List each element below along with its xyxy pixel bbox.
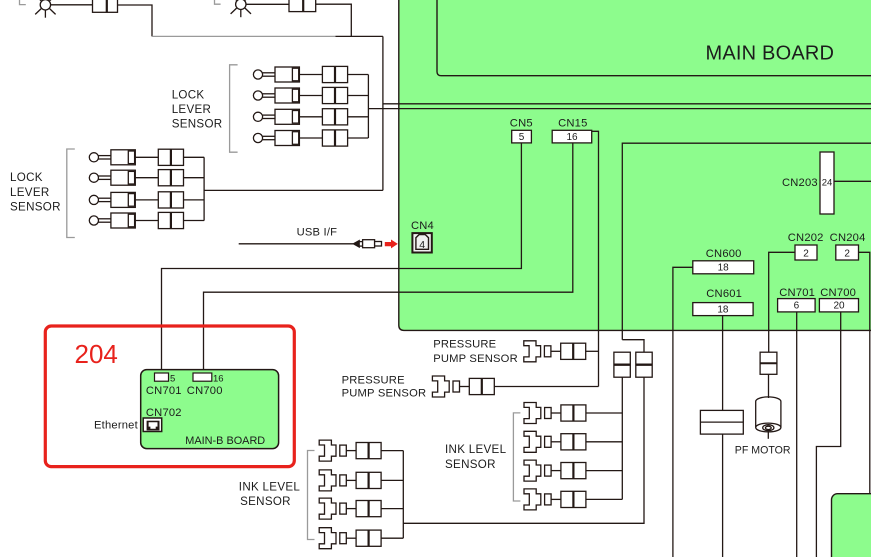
PF motor — [756, 397, 781, 439]
ink level sensor left row 3 — [319, 498, 381, 519]
wire to junction — [118, 5, 153, 36]
svg-text:204: 204 — [75, 339, 118, 369]
wire row 4 — [586, 498, 622, 500]
wire row 2 — [586, 441, 622, 443]
wire S2 to connector — [246, 3, 289, 5]
svg-text:CN701: CN701 — [779, 287, 815, 299]
wire ferrite feed from right edge — [622, 143, 871, 340]
lock lever sensor right row 2 — [253, 87, 368, 103]
wire left lock group feed — [204, 189, 383, 191]
svg-text:CN702: CN702 — [146, 407, 182, 419]
wire upper pressure sensor — [586, 350, 599, 352]
right lock lever sensor bracket — [230, 65, 238, 152]
wire encoder down — [722, 434, 724, 557]
svg-text:PUMP SENSOR: PUMP SENSOR — [433, 353, 518, 365]
svg-text:SENSOR: SENSOR — [445, 458, 496, 471]
svg-text:SENSOR: SENSOR — [10, 200, 61, 213]
wire lower bus into board — [368, 108, 871, 110]
wire top bus gray segment — [152, 35, 336, 37]
wire row 1 — [586, 412, 622, 414]
svg-text:USB I/F: USB I/F — [297, 226, 338, 238]
MAIN BOARD outer green board — [399, 0, 871, 330]
encoder 2-row box — [700, 410, 743, 434]
svg-text:INK LEVEL: INK LEVEL — [239, 481, 301, 494]
wire row 2 — [381, 479, 403, 481]
svg-text:PRESSURE: PRESSURE — [433, 339, 496, 351]
connector pair top row 1 (cut at top) — [93, 0, 118, 12]
svg-text:16: 16 — [213, 374, 224, 385]
connector CN701 (MAIN-B) — [155, 373, 169, 381]
svg-text:18: 18 — [717, 304, 729, 315]
lock lever sensor right row 3 — [253, 109, 368, 125]
svg-text:CN600: CN600 — [706, 248, 742, 260]
svg-text:CN203: CN203 — [782, 177, 818, 189]
ink level sensor left row 4 — [319, 528, 381, 549]
svg-text:CN15: CN15 — [558, 117, 587, 129]
lock lever sensor left row 1 — [89, 149, 204, 165]
lock lever sensor left row 4 — [89, 212, 204, 228]
connector pair top row 2 (cut at top) — [289, 0, 316, 12]
svg-text:24: 24 — [822, 178, 833, 189]
svg-text:4: 4 — [419, 239, 425, 251]
svg-text:18: 18 — [718, 263, 730, 274]
wire S1 to connector — [51, 4, 93, 6]
svg-text:SENSOR: SENSOR — [240, 495, 291, 508]
svg-text:INK LEVEL: INK LEVEL — [445, 443, 507, 456]
wire CN15 to pressure pump sensors — [592, 131, 599, 386]
top gray bracket stub 1 — [20, 0, 26, 5]
wire ferrite 2 to left ink bus — [403, 377, 644, 523]
wire CN15 to MAIN-B CN700 — [204, 143, 573, 373]
right ink level sensor bracket — [513, 413, 520, 501]
svg-text:PF MOTOR: PF MOTOR — [735, 445, 791, 457]
svg-text:MAIN BOARD: MAIN BOARD — [706, 42, 835, 64]
svg-text:SENSOR: SENSOR — [172, 118, 223, 131]
wire ferrite 1 to right ink bus — [621, 377, 623, 499]
PF motor connector — [760, 352, 777, 374]
ferrite core 1 — [614, 352, 630, 377]
OTHER BOARD bottom-right green board — [832, 494, 871, 557]
USB wire — [239, 243, 354, 245]
svg-text:CN5: CN5 — [510, 117, 533, 129]
lock lever sensor left row 3 — [89, 192, 204, 208]
svg-text:2: 2 — [803, 248, 809, 259]
USB plug symbol — [353, 240, 381, 248]
highlight box 204 — [45, 326, 294, 467]
left lock lever sensor bracket — [67, 149, 75, 238]
left lock group bus — [203, 157, 205, 220]
svg-text:CN700: CN700 — [820, 287, 856, 299]
ink level sensor right row 4 — [524, 489, 586, 510]
wire branch to ferrite 2 — [622, 340, 644, 353]
svg-text:20: 20 — [833, 301, 845, 312]
connector CN700 (MAIN-B) — [193, 373, 212, 381]
ink level sensor right row 3 — [524, 460, 586, 481]
wire CN701 down — [796, 312, 798, 557]
wire CN5 to MAIN-B CN701 — [162, 143, 522, 373]
svg-text:LEVER: LEVER — [10, 186, 50, 199]
right lock group bus — [367, 75, 369, 139]
wire row 3 — [586, 470, 622, 472]
wire CN700 down with jog — [816, 312, 840, 557]
svg-text:CN202: CN202 — [788, 232, 824, 244]
svg-text:LOCK: LOCK — [172, 88, 205, 101]
wire row 1 — [381, 450, 403, 452]
ink level sensor right row 1 — [524, 403, 586, 424]
svg-text:LOCK: LOCK — [10, 171, 43, 184]
svg-text:Ethernet: Ethernet — [94, 420, 139, 432]
svg-text:CN204: CN204 — [830, 232, 866, 244]
wire CN600 down — [673, 267, 693, 557]
wire row 3 — [381, 508, 403, 510]
ferrite core 2 — [636, 352, 652, 377]
svg-text:LEVER: LEVER — [172, 103, 212, 116]
svg-text:CN4: CN4 — [411, 220, 434, 232]
wire lower pressure sensor — [494, 386, 598, 388]
MAIN BOARD inner board outline — [437, 0, 871, 76]
svg-text:CN601: CN601 — [706, 288, 742, 300]
pressure pump sensor upper — [524, 341, 586, 362]
wire CN202 to PF motor connector — [769, 252, 795, 352]
wire to junction — [316, 4, 352, 36]
red arrow to CN4 — [385, 240, 398, 249]
ink level sensor right row 2 — [524, 431, 586, 452]
top gray bracket stub 2 — [215, 0, 221, 4]
wire CN203 to right edge — [834, 180, 871, 182]
lock lever sensor right row 1 — [253, 66, 368, 82]
wire CN204 to other board — [859, 252, 870, 493]
svg-text:PUMP SENSOR: PUMP SENSOR — [342, 387, 427, 399]
svg-text:CN701: CN701 — [146, 385, 182, 397]
svg-text:MAIN-B BOARD: MAIN-B BOARD — [185, 435, 265, 447]
left ink level sensor bracket — [308, 451, 315, 540]
wire upper bus into board — [383, 103, 871, 105]
svg-text:16: 16 — [566, 132, 578, 143]
svg-text:5: 5 — [519, 132, 525, 143]
wire connector to motor — [768, 374, 770, 398]
lock lever sensor right row 4 — [253, 130, 368, 146]
lock lever sensor left row 2 — [89, 170, 204, 186]
wire CN601 to encoder box — [722, 316, 724, 411]
MAIN-B BOARD green board — [141, 370, 279, 449]
svg-text:CN700: CN700 — [187, 385, 223, 397]
ink level sensor left row 2 — [319, 470, 381, 491]
svg-text:PRESSURE: PRESSURE — [342, 375, 405, 387]
wire vertical feeder x383 — [382, 36, 384, 190]
wire top bus dark segment — [336, 35, 383, 37]
lamp sensor S2 — [231, 0, 251, 17]
left ink group bus — [402, 451, 404, 539]
connector CN702 ethernet jack icon — [143, 418, 162, 432]
connector CN4 (USB port icon) — [412, 233, 431, 252]
svg-text:5: 5 — [170, 374, 175, 385]
ink level sensor left row 1 — [319, 440, 381, 461]
svg-text:6: 6 — [794, 301, 800, 312]
wire row 4 — [381, 537, 403, 539]
svg-text:2: 2 — [844, 248, 850, 259]
pressure pump sensor lower — [432, 376, 494, 397]
lamp sensor S1 — [35, 0, 55, 18]
